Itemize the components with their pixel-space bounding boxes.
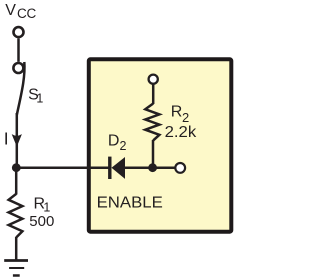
node VCC label [5, 2, 36, 21]
wire node A to R1 [15, 168, 18, 195]
enable block box [89, 59, 232, 231]
svg-text:R: R [171, 104, 183, 121]
svg-text:500: 500 [29, 213, 54, 230]
label R2 [171, 104, 189, 126]
VCC terminal [14, 27, 24, 37]
svg-text:2.2k: 2.2k [165, 124, 198, 141]
node B junction [148, 163, 157, 172]
wire node A to diode D2 [16, 166, 108, 169]
wire diode to node B [125, 166, 153, 169]
wire R1 to ground [15, 237, 18, 260]
svg-text:2: 2 [120, 139, 127, 153]
wire switch to node A [16, 113, 19, 168]
label R1 [34, 195, 51, 214]
wire node B to output terminal [153, 166, 175, 169]
label S1 [28, 86, 43, 105]
ground [4, 261, 28, 276]
switch S1 blade [17, 62, 25, 115]
svg-text:1: 1 [36, 91, 43, 105]
current arrow [12, 134, 22, 147]
svg-text:CC: CC [17, 6, 37, 21]
svg-text:V: V [5, 2, 16, 19]
label D2 [108, 133, 127, 153]
svg-text:I: I [4, 128, 9, 148]
wire terminal to R2 [152, 85, 155, 105]
svg-text:ENABLE: ENABLE [97, 195, 163, 212]
resistor R2 [145, 104, 159, 141]
diode D2 [108, 157, 125, 179]
resistor R1 [9, 194, 23, 238]
node A junction [12, 163, 21, 172]
output terminal [175, 163, 185, 173]
switch S1 terminal [13, 63, 23, 73]
pull-up terminal [149, 75, 158, 84]
wire VCC terminal to switch terminal [17, 38, 20, 61]
wire R2 to node B [152, 140, 155, 168]
svg-text:D: D [108, 133, 120, 150]
